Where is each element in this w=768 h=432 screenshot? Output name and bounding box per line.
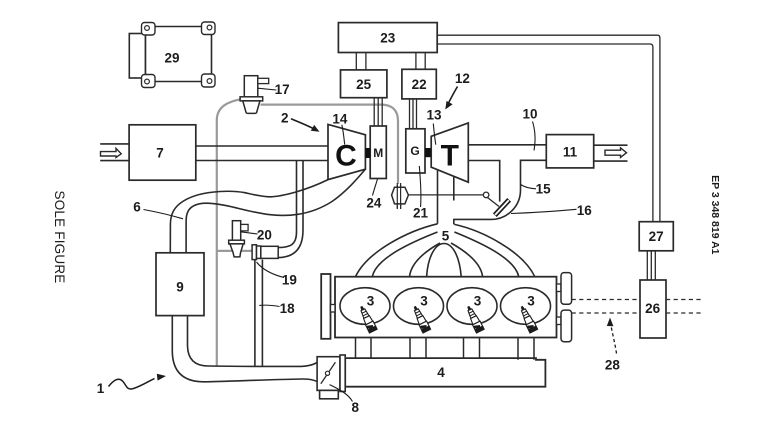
svg-text:26: 26 [645, 301, 661, 316]
svg-text:1: 1 [97, 381, 105, 396]
svg-text:4: 4 [437, 365, 445, 380]
svg-text:9: 9 [176, 280, 184, 295]
svg-text:18: 18 [280, 301, 296, 316]
svg-text:25: 25 [356, 77, 372, 92]
svg-text:3: 3 [527, 294, 535, 309]
svg-text:12: 12 [455, 71, 470, 86]
svg-text:M: M [373, 146, 383, 160]
svg-text:C: C [335, 140, 357, 173]
svg-text:SOLE FIGURE: SOLE FIGURE [52, 191, 67, 284]
svg-text:10: 10 [522, 107, 537, 122]
svg-text:16: 16 [577, 203, 593, 218]
svg-text:22: 22 [412, 77, 427, 92]
svg-text:29: 29 [164, 50, 179, 65]
svg-text:23: 23 [380, 31, 396, 46]
svg-text:T: T [441, 140, 459, 173]
svg-text:14: 14 [332, 112, 348, 127]
svg-text:28: 28 [605, 358, 621, 373]
svg-text:EP 3 348 819 A1: EP 3 348 819 A1 [709, 175, 721, 255]
svg-text:24: 24 [366, 195, 382, 210]
svg-text:7: 7 [156, 145, 164, 160]
svg-text:11: 11 [563, 144, 578, 159]
svg-text:15: 15 [536, 182, 552, 197]
svg-text:21: 21 [413, 206, 429, 221]
svg-text:2: 2 [281, 110, 289, 125]
svg-text:G: G [410, 144, 419, 158]
svg-text:17: 17 [275, 82, 290, 97]
svg-text:5: 5 [442, 229, 450, 244]
svg-text:3: 3 [474, 294, 482, 309]
svg-text:13: 13 [426, 107, 442, 122]
svg-text:19: 19 [282, 272, 297, 287]
svg-text:3: 3 [367, 294, 375, 309]
svg-text:6: 6 [133, 200, 141, 215]
svg-text:3: 3 [420, 294, 428, 309]
svg-text:20: 20 [257, 228, 272, 243]
svg-text:8: 8 [351, 400, 359, 415]
svg-text:27: 27 [649, 229, 664, 244]
